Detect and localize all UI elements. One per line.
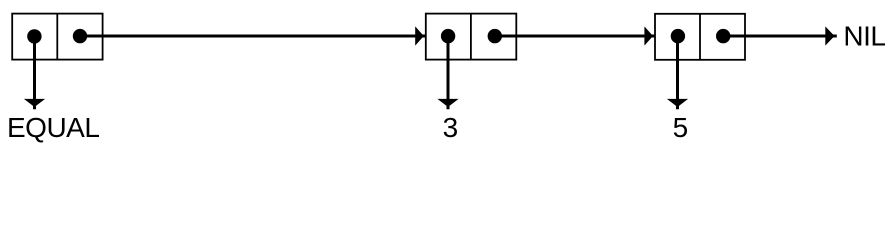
- cons cell 2 cdr pointer dot: [488, 29, 502, 43]
- svg-text:NIL: NIL: [843, 21, 885, 52]
- cons cell 1 box: [12, 14, 102, 60]
- cons cell 1 cdr pointer dot: [73, 29, 87, 43]
- svg-text:EQUAL: EQUAL: [7, 112, 99, 143]
- svg-text:5: 5: [673, 112, 689, 143]
- svg-text:3: 3: [443, 112, 459, 143]
- wire: car arrow from cell 1 down to EQUAL: [24, 36, 45, 109]
- cons cell 1 car pointer dot: [27, 29, 41, 43]
- wire: cdr arrow from cell 1 to cell 2: [80, 26, 425, 45]
- cons cell 2 car pointer dot: [441, 29, 455, 43]
- wire: cdr arrow from cell 2 to cell 3: [495, 26, 655, 45]
- cons cell 3 box: [655, 14, 745, 60]
- cons cell 3 car pointer dot: [671, 29, 685, 43]
- wire: car arrow from cell 3 down to 5: [667, 36, 688, 109]
- wire: cdr arrow from cell 3 to NIL: [723, 26, 837, 45]
- wire: car arrow from cell 2 down to 3: [437, 36, 458, 109]
- cons cell 2 box: [426, 14, 517, 60]
- cons cell 3 cdr pointer dot: [716, 29, 730, 43]
